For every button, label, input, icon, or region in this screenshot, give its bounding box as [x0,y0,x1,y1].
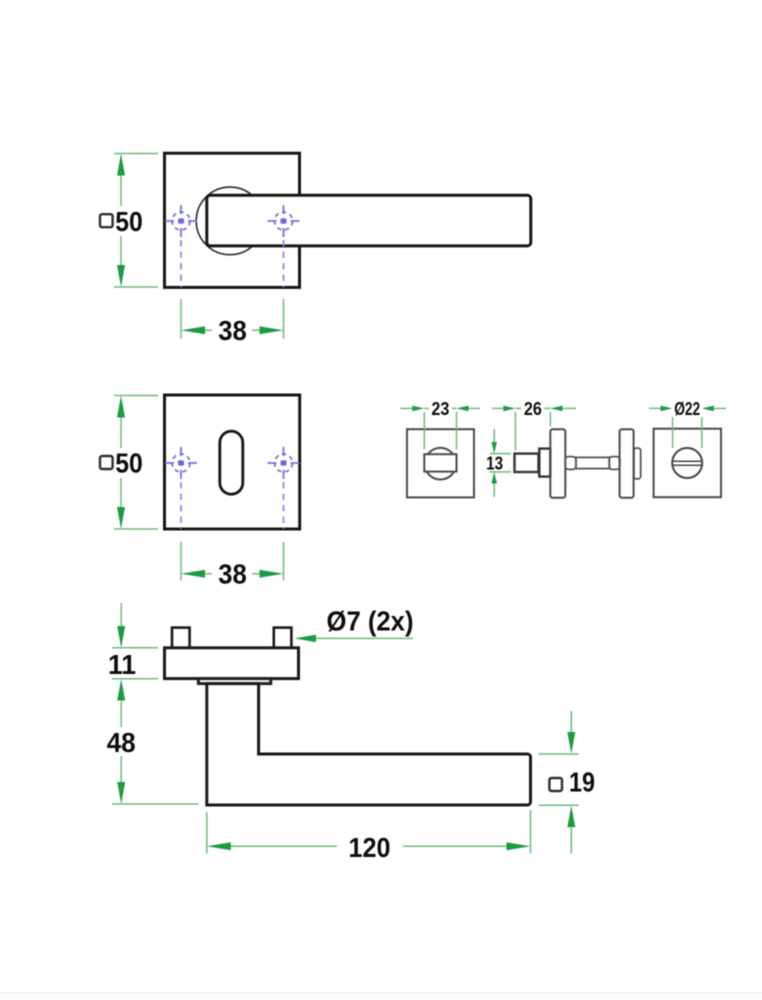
svg-text:26: 26 [524,399,542,419]
svg-text:23: 23 [431,399,449,419]
svg-text:38: 38 [218,559,247,590]
svg-text:48: 48 [107,727,136,758]
svg-text:11: 11 [108,649,136,680]
svg-text:50: 50 [115,448,143,479]
svg-text:Ø7 (2x): Ø7 (2x) [327,606,414,637]
svg-text:38: 38 [218,315,247,346]
svg-text:120: 120 [349,832,391,863]
svg-text:13: 13 [486,454,503,474]
svg-text:Ø22: Ø22 [674,399,700,419]
svg-text:19: 19 [569,766,595,797]
svg-text:50: 50 [115,206,143,237]
